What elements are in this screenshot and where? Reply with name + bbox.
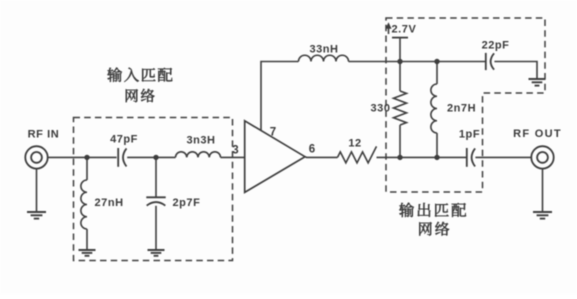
svg-text:7: 7	[270, 127, 276, 139]
svg-text:33nH: 33nH	[309, 44, 338, 56]
svg-text:2n7H: 2n7H	[447, 103, 476, 115]
svg-text:2.7V: 2.7V	[392, 24, 417, 36]
svg-text:330: 330	[371, 103, 391, 115]
svg-text:6: 6	[309, 144, 315, 156]
svg-text:2p7F: 2p7F	[173, 197, 201, 209]
svg-text:1pF: 1pF	[459, 129, 480, 141]
svg-text:RF OUT: RF OUT	[513, 128, 562, 140]
svg-text:27nH: 27nH	[95, 197, 124, 209]
svg-text:3n3H: 3n3H	[186, 135, 215, 147]
svg-text:12: 12	[348, 138, 361, 150]
svg-text:RF IN: RF IN	[28, 129, 60, 141]
svg-text:3: 3	[232, 145, 238, 157]
svg-text:47pF: 47pF	[110, 134, 138, 146]
svg-text:22pF: 22pF	[482, 40, 510, 52]
